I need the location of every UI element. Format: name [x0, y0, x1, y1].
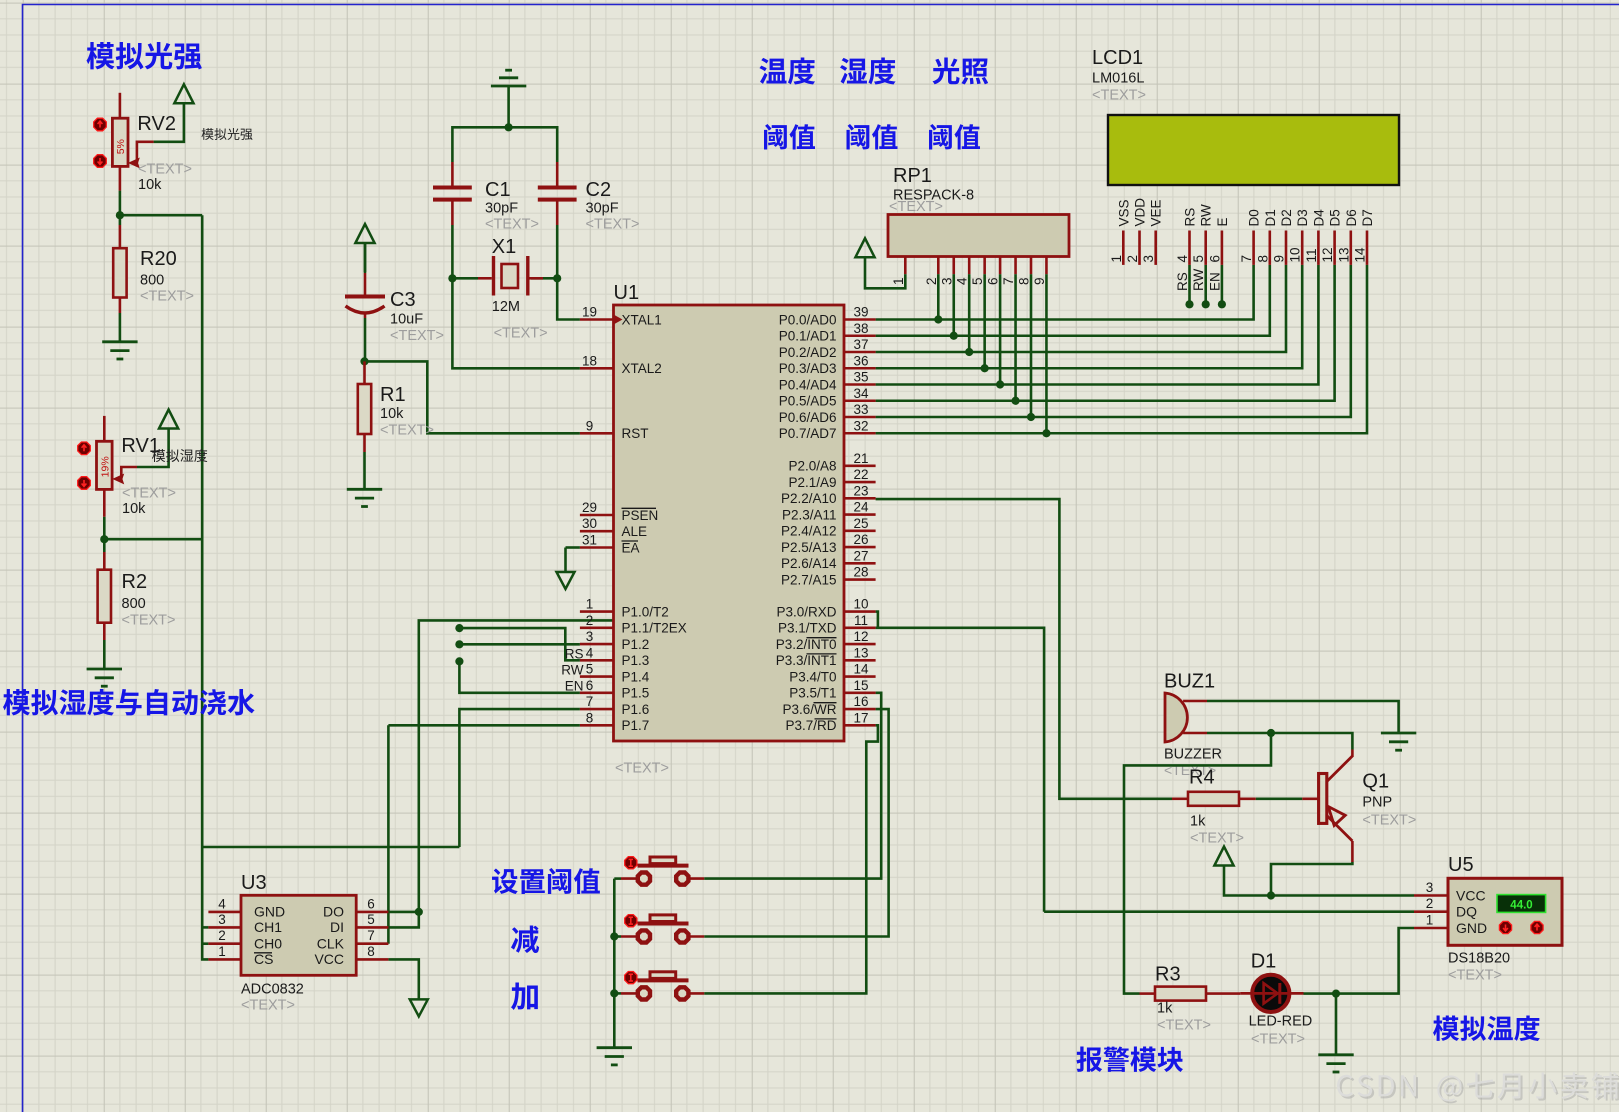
svg-text:LM016L: LM016L: [1092, 71, 1144, 87]
svg-text:D5: D5: [1328, 209, 1343, 226]
R20 top lead: [119, 225, 122, 248]
actuator button U5 down: [1499, 921, 1511, 933]
power +5V arrow RP1 common: [855, 238, 874, 257]
svg-text:R4: R4: [1189, 767, 1215, 789]
svg-text:<TEXT>: <TEXT>: [138, 162, 192, 178]
R20 bottom lead: [119, 298, 122, 314]
svg-text:10k: 10k: [138, 177, 162, 193]
BUZ1 top lead: [1183, 700, 1207, 703]
wire RP1 pin2 drop: [937, 274, 940, 319]
wire CLK column: [387, 725, 390, 943]
svg-text:P0.5/AD5: P0.5/AD5: [779, 394, 837, 409]
wire P0.4 to LCD D4: [876, 265, 1319, 385]
svg-text:4: 4: [955, 277, 970, 285]
svg-text:D6: D6: [1344, 209, 1359, 226]
RV1 top lead: [103, 416, 106, 441]
junction RP1 pin4 on P0.2: [965, 348, 973, 356]
wire P3.7 to button3: [704, 725, 878, 993]
LCD1 screen: [1108, 115, 1399, 185]
svg-text:U1: U1: [614, 282, 640, 304]
svg-text:P2.5/A13: P2.5/A13: [781, 540, 837, 555]
svg-text:1: 1: [1426, 913, 1434, 928]
op-amp/mcu U1 body (80C51): [614, 305, 845, 741]
ground below R2: [87, 669, 122, 686]
svg-text:5: 5: [586, 662, 594, 677]
junction RP1 pin5 on P0.3: [981, 364, 989, 372]
wire collector to R3: [1124, 733, 1271, 994]
svg-text:GND: GND: [1456, 920, 1487, 936]
svg-text:VCC: VCC: [314, 951, 344, 967]
wire LCD ctl stub: [1221, 265, 1224, 304]
wire RP1 pin5 drop: [983, 274, 986, 368]
svg-text:7: 7: [367, 928, 375, 943]
label note 模拟光强: [202, 128, 253, 140]
svg-text:P3.7/RD: P3.7/RD: [785, 718, 836, 733]
wire button common bus: [613, 879, 616, 1048]
wire P0.3 to LCD D3: [876, 265, 1303, 368]
wire RP1 pin7 drop: [1014, 274, 1017, 401]
junction RP1 pin6 on P0.4: [996, 380, 1004, 388]
wire P3.1 riser: [876, 628, 1045, 912]
svg-text:<TEXT>: <TEXT>: [122, 486, 176, 502]
svg-text:10: 10: [1288, 247, 1303, 262]
svg-text:RV2: RV2: [137, 113, 176, 135]
wire X1 right link: [531, 277, 557, 280]
junction LCD ctl net end: [1202, 300, 1210, 308]
junction RP1 pin8 on P0.6: [1027, 413, 1035, 421]
svg-text:18: 18: [582, 353, 597, 368]
svg-text:3: 3: [1141, 255, 1156, 263]
svg-text:CH0: CH0: [254, 936, 282, 952]
U1 pin stubs left: [580, 318, 614, 321]
junction LCD ctl net end: [1218, 300, 1226, 308]
wire bus link to P1.6 riser: [202, 846, 459, 849]
transistor Q1 (PNP): [1319, 774, 1327, 824]
svg-text:<TEXT>: <TEXT>: [615, 761, 669, 777]
wire X1 left link: [452, 277, 478, 280]
label title 光照: [933, 58, 989, 85]
svg-text:BUZ1: BUZ1: [1164, 671, 1215, 693]
svg-text:36: 36: [853, 353, 868, 368]
wire node to RST: [365, 361, 580, 433]
svg-text:24: 24: [853, 500, 869, 515]
wire DQ line: [1044, 910, 1414, 913]
svg-text:8: 8: [1255, 255, 1270, 263]
label title 报警模块: [1077, 1047, 1183, 1073]
wire bus to CH0: [202, 942, 208, 945]
wire P0.5 to LCD D5: [876, 265, 1335, 401]
wire junction to C1,C2 tops: [452, 127, 557, 162]
svg-text:1: 1: [891, 277, 906, 285]
crystal X1: [502, 264, 519, 288]
svg-text:30pF: 30pF: [586, 201, 619, 217]
svg-text:2: 2: [586, 613, 594, 628]
svg-text:GND: GND: [254, 904, 285, 920]
wire P3.5 to button1: [704, 693, 881, 879]
svg-text:33: 33: [853, 402, 868, 417]
svg-text:1: 1: [218, 944, 226, 959]
svg-text:14: 14: [853, 662, 869, 677]
R4 right lead: [1239, 797, 1256, 800]
actuator button B3 (plus) actuator: [625, 972, 637, 984]
ground right of BUZ1: [1381, 733, 1416, 750]
wire R1 bottom to ground: [363, 452, 366, 489]
svg-text:12: 12: [853, 629, 868, 644]
svg-text:<TEXT>: <TEXT>: [1448, 968, 1502, 984]
wire RV1 bottom: [103, 517, 106, 540]
svg-text:11: 11: [1304, 248, 1319, 262]
svg-text:P3.5/T1: P3.5/T1: [789, 686, 836, 701]
svg-text:D1: D1: [1263, 209, 1278, 226]
svg-text:P3.1/TXD: P3.1/TXD: [778, 621, 837, 636]
C3 top lead: [364, 273, 367, 295]
wire Q1 emitter to VCC node: [1271, 862, 1352, 896]
C3 bottom lead: [364, 314, 367, 318]
svg-text:ALE: ALE: [622, 524, 648, 539]
svg-text:<TEXT>: <TEXT>: [140, 289, 194, 305]
U5 pin stubs: [1414, 894, 1448, 897]
svg-text:VCC: VCC: [1456, 888, 1486, 904]
svg-text:2: 2: [924, 277, 939, 285]
svg-text:1: 1: [586, 597, 594, 612]
svg-text:P2.4/A12: P2.4/A12: [781, 524, 837, 539]
junction RW terminal: [455, 640, 463, 648]
label title 阈值 3: [929, 124, 980, 150]
X1 right lead: [530, 277, 544, 280]
svg-text:<TEXT>: <TEXT>: [889, 199, 943, 215]
svg-text:10k: 10k: [380, 406, 404, 422]
svg-text:R1: R1: [380, 384, 406, 406]
svg-text:4: 4: [218, 896, 226, 911]
wire DO link: [388, 911, 418, 914]
svg-text:C1: C1: [485, 179, 511, 201]
actuator button RV2 down: [94, 155, 107, 168]
C1 top lead: [451, 162, 454, 186]
resistor R2 body: [98, 570, 111, 623]
svg-text:CLK: CLK: [317, 936, 345, 952]
svg-text:RW: RW: [1199, 204, 1214, 227]
junction LCD ctl net end: [1185, 300, 1193, 308]
svg-text:10uF: 10uF: [390, 312, 423, 328]
svg-text:P3.3/INT1: P3.3/INT1: [776, 653, 837, 668]
svg-text:VEE: VEE: [1149, 199, 1164, 226]
wire node to R2: [103, 539, 106, 552]
actuator button U5 up: [1531, 921, 1543, 933]
wire node to U5 GND: [1336, 928, 1414, 994]
svg-text:RW: RW: [561, 663, 584, 678]
svg-text:7: 7: [1239, 255, 1254, 263]
svg-text:XTAL2: XTAL2: [622, 361, 662, 376]
wire P3.6 to button2: [704, 709, 888, 936]
svg-text:P2.1/A9: P2.1/A9: [788, 475, 836, 490]
svg-text:23: 23: [853, 483, 868, 498]
R1 top lead: [363, 361, 366, 384]
svg-text:R3: R3: [1155, 964, 1181, 986]
svg-text:21: 21: [853, 451, 868, 466]
junction RP1 pin2 on P0.0: [934, 315, 942, 323]
svg-text:9: 9: [586, 418, 594, 433]
junction C1/C2 top: [505, 123, 513, 131]
svg-text:13: 13: [1336, 247, 1351, 262]
svg-text:6: 6: [986, 277, 1001, 285]
label title 温度: [760, 58, 816, 85]
junction X1 left node: [448, 274, 456, 282]
svg-text:44.0: 44.0: [1510, 900, 1532, 912]
push button B3 (plus): [621, 992, 639, 995]
svg-text:7: 7: [586, 694, 594, 709]
actuator button RV1 up: [78, 442, 91, 455]
svg-text:<TEXT>: <TEXT>: [390, 328, 444, 344]
wire bus to button1: [614, 877, 621, 880]
svg-text:30pF: 30pF: [485, 201, 518, 217]
sensor U5 body (DS18B20): [1448, 878, 1562, 945]
svg-text:P0.4/AD4: P0.4/AD4: [779, 377, 837, 392]
svg-text:19: 19: [582, 305, 597, 320]
svg-text:P0.6/AD6: P0.6/AD6: [779, 410, 837, 425]
LCD pin stubs: [1122, 231, 1125, 265]
svg-text:P1.0/T2: P1.0/T2: [622, 604, 669, 619]
svg-text:<TEXT>: <TEXT>: [586, 217, 640, 233]
wire C1 bottom to X1 left: [451, 225, 454, 278]
capacitor C3 (polarized): [345, 295, 385, 299]
junction RP1 pin3 on P0.1: [950, 332, 958, 340]
potentiometer RV1 body: [97, 441, 113, 489]
svg-text:D4: D4: [1311, 209, 1326, 227]
svg-text:P0.0/AD0: P0.0/AD0: [779, 312, 837, 327]
svg-text:EN: EN: [1207, 272, 1222, 291]
svg-text:38: 38: [853, 321, 868, 336]
svg-text:D1: D1: [1251, 951, 1277, 973]
wire P3.0 jog: [876, 612, 878, 628]
C2 top lead: [556, 162, 559, 186]
svg-text:25: 25: [853, 516, 868, 531]
svg-text:RP1: RP1: [893, 165, 932, 187]
svg-text:P0.7/AD7: P0.7/AD7: [779, 426, 837, 441]
R2 top lead: [103, 552, 106, 570]
R1 bottom lead: [363, 434, 366, 452]
svg-text:37: 37: [853, 337, 868, 352]
junction LED/ground node: [1332, 990, 1340, 998]
power +5V arrow RV1 wiper: [159, 410, 178, 429]
svg-text:P0.2/AD2: P0.2/AD2: [779, 345, 837, 360]
svg-text:EA: EA: [622, 540, 640, 555]
svg-text:12: 12: [1320, 247, 1335, 262]
svg-text:<TEXT>: <TEXT>: [122, 613, 176, 629]
svg-text:X1: X1: [492, 236, 516, 258]
ground buttons common: [597, 1048, 632, 1065]
svg-text:3: 3: [1426, 880, 1434, 895]
svg-text:R20: R20: [140, 248, 177, 270]
svg-text:RST: RST: [622, 426, 649, 441]
svg-text:U5: U5: [1448, 854, 1474, 876]
Q1 collector lead: [1351, 750, 1354, 758]
svg-text:<TEXT>: <TEXT>: [1190, 831, 1244, 847]
svg-text:6: 6: [367, 896, 375, 911]
svg-text:DS18B20: DS18B20: [1448, 951, 1510, 967]
wire RP1 pin6 drop: [999, 274, 1002, 384]
svg-text:<TEXT>: <TEXT>: [380, 423, 434, 439]
svg-text:8: 8: [1017, 277, 1032, 285]
svg-text:DQ: DQ: [1456, 904, 1477, 920]
svg-text:VSS: VSS: [1116, 199, 1131, 226]
actuator button RV2 up: [94, 118, 107, 131]
svg-text:<TEXT>: <TEXT>: [1251, 1032, 1305, 1048]
wire bus to CH1: [202, 926, 208, 929]
svg-text:Q1: Q1: [1362, 771, 1389, 793]
svg-text:35: 35: [853, 370, 868, 385]
svg-text:11: 11: [854, 613, 868, 628]
wire P1.1 net riser to DO: [419, 620, 614, 912]
wire C3 to R1 top: [364, 318, 367, 361]
svg-text:P2.3/A11: P2.3/A11: [782, 507, 837, 522]
LED D1: [1252, 975, 1289, 1012]
push button B2 (minus): [621, 935, 639, 938]
X1 left lead: [478, 277, 492, 280]
wire R4 to Q1 base: [1256, 797, 1303, 800]
svg-text:16: 16: [853, 694, 868, 709]
svg-text:XTAL1: XTAL1: [622, 312, 662, 327]
svg-text:1k: 1k: [1157, 1001, 1173, 1017]
power arrow down EA pulldown: [557, 572, 575, 589]
svg-text:2: 2: [1125, 255, 1140, 263]
svg-text:P1.5: P1.5: [622, 686, 650, 701]
label title 模拟湿度与自动浇水: [3, 689, 255, 716]
U1 overlines: [622, 508, 837, 719]
svg-text:31: 31: [582, 533, 597, 548]
resistor R20 body: [113, 248, 126, 297]
svg-text:P1.1/T2EX: P1.1/T2EX: [622, 621, 687, 636]
svg-text:P3.4/T0: P3.4/T0: [789, 669, 836, 684]
watermark CSDN @七月小卖铺: [1337, 1072, 1619, 1103]
svg-text:26: 26: [853, 532, 868, 547]
label title 阈值 2: [847, 124, 898, 150]
RV1 bottom lead: [103, 489, 106, 516]
svg-text:P2.0/A8: P2.0/A8: [788, 459, 836, 474]
svg-text:RW: RW: [1191, 268, 1206, 291]
junction VCC node: [1267, 891, 1275, 899]
svg-text:9: 9: [1032, 277, 1047, 285]
wire power to C3: [364, 243, 367, 273]
svg-text:800: 800: [140, 273, 164, 289]
svg-text:DI: DI: [330, 919, 344, 935]
wire P1.7 to CLK column: [388, 724, 580, 727]
resistor R4 body: [1188, 792, 1239, 806]
push button B1 (set): [621, 877, 639, 880]
svg-text:6: 6: [1207, 255, 1222, 263]
svg-text:P1.4: P1.4: [622, 669, 650, 684]
svg-text:1k: 1k: [1190, 814, 1206, 830]
wire U3 VCC to power: [388, 959, 418, 999]
svg-text:EN: EN: [565, 679, 584, 694]
svg-text:22: 22: [853, 467, 868, 482]
svg-text:P3.0/RXD: P3.0/RXD: [776, 604, 836, 619]
svg-text:3: 3: [939, 277, 954, 285]
wire node to R20: [119, 215, 122, 225]
junction C3/R1/RST node: [360, 357, 368, 365]
svg-text:<TEXT>: <TEXT>: [1157, 1018, 1211, 1034]
junction EN terminal: [455, 657, 463, 665]
svg-text:P0.3/AD3: P0.3/AD3: [779, 361, 837, 376]
svg-text:PNP: PNP: [1362, 795, 1392, 811]
svg-text:3: 3: [218, 912, 226, 927]
wire analog bus column to U3 CS: [202, 215, 208, 959]
ADC U3 body (ADC0832): [241, 895, 356, 975]
svg-text:<TEXT>: <TEXT>: [485, 217, 539, 233]
svg-text:<TEXT>: <TEXT>: [1092, 88, 1146, 104]
label title 湿度: [840, 58, 896, 85]
svg-text:P1.7: P1.7: [622, 718, 650, 733]
wire X1 right to XTAL1: [557, 278, 580, 319]
R2 bottom lead: [103, 623, 106, 640]
svg-text:CS: CS: [254, 951, 273, 967]
wire RP1 pin4 drop: [968, 274, 971, 352]
wire node to ground: [1335, 994, 1338, 1055]
RV2 bottom lead: [119, 166, 122, 190]
svg-text:C2: C2: [586, 179, 612, 201]
wire BUZ1 bottom / Q1 collector: [1207, 733, 1352, 750]
ground below R20: [102, 342, 137, 359]
wire RS to P1.3: [459, 628, 580, 660]
svg-text:P3.2/INT0: P3.2/INT0: [776, 637, 837, 652]
ground (inverted) above C1/C2: [491, 70, 526, 86]
svg-text:14: 14: [1353, 247, 1368, 263]
junction bus/button2: [610, 932, 618, 940]
power +5V arrow RV2 wiper: [174, 84, 193, 103]
svg-text:34: 34: [853, 386, 869, 401]
svg-text:4: 4: [1175, 255, 1190, 263]
C1 bottom lead: [451, 202, 454, 226]
Q1 emitter lead: [1351, 841, 1354, 862]
wire EN to P1.5: [459, 661, 580, 692]
svg-text:P2.7/A15: P2.7/A15: [781, 572, 837, 587]
wire bus to button3: [614, 992, 621, 995]
wire RP1 pin9 drop: [1045, 274, 1048, 433]
svg-text:VDD: VDD: [1133, 198, 1148, 227]
svg-text:D7: D7: [1360, 209, 1375, 226]
svg-text:17: 17: [853, 710, 868, 725]
svg-text:ADC0832: ADC0832: [241, 982, 304, 998]
svg-text:6: 6: [586, 678, 594, 693]
wire R20 to ground: [119, 313, 122, 342]
RV2 wiper arm: [137, 142, 154, 163]
U5 temperature display: [1497, 895, 1546, 913]
svg-text:P2.6/A14: P2.6/A14: [781, 556, 837, 571]
wire P0.6 to LCD D6: [876, 265, 1351, 417]
svg-text:800: 800: [122, 596, 146, 612]
wire R2 to ground: [103, 640, 106, 669]
wire RV2 bottom: [119, 191, 122, 216]
wire bus to button2: [614, 935, 621, 938]
svg-text:29: 29: [582, 500, 597, 515]
svg-text:5%: 5%: [115, 139, 127, 154]
svg-text:RS: RS: [1183, 208, 1198, 227]
ground below U5/D1: [1318, 1055, 1353, 1072]
resistor R3 body: [1155, 987, 1206, 1001]
svg-text:15: 15: [853, 678, 868, 693]
svg-text:CH1: CH1: [254, 919, 282, 935]
svg-text:5: 5: [367, 912, 375, 927]
wire RP1 pin1 to power: [865, 257, 905, 288]
svg-text:DO: DO: [323, 904, 344, 920]
buzzer BUZ1: [1165, 693, 1187, 742]
svg-text:RS: RS: [1175, 272, 1190, 291]
actuator button B1 (set) actuator: [625, 857, 637, 869]
C2 bottom lead: [556, 202, 559, 226]
svg-text:P1.2: P1.2: [622, 637, 650, 652]
wire RP1 pin3 drop: [952, 274, 955, 336]
junction RS terminal: [455, 624, 463, 632]
junction RV2/R20 node: [116, 211, 124, 219]
